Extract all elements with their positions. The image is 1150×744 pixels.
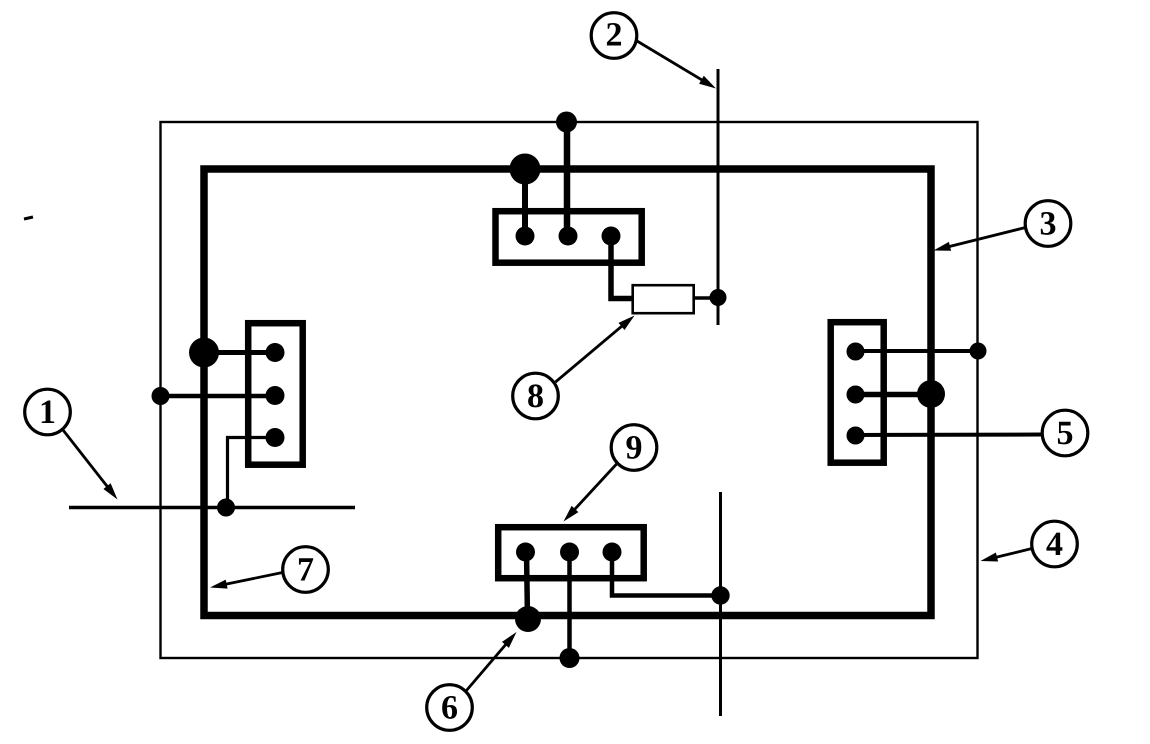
node dot: J4 pin 3 to net 2: [711, 586, 729, 604]
pin J3-2: [847, 386, 865, 404]
wire: J4 pin 1 to bottom ring junction: [527, 552, 528, 619]
board outline (outer thin rectangle): [161, 122, 978, 658]
resistor R1: [633, 285, 694, 313]
wire: left edge dot to J2 pin 2: [161, 394, 276, 399]
ground ring trace (inner thick rectangle): [204, 169, 931, 616]
node dot: bottom board edge: [560, 648, 580, 668]
junction dot: right ring / J3 pin2 net: [917, 380, 945, 408]
connector J3 (right): [831, 322, 884, 463]
node dot: left board edge: [152, 387, 170, 405]
leader arrow for callout 8: [556, 322, 627, 382]
callout circle 8: [513, 373, 559, 419]
pin J3-1: [847, 343, 865, 361]
callout label 2: [607, 23, 621, 46]
wire: J3 pin 2 to right ring junction: [856, 392, 932, 398]
leader arrow for callout 2: [637, 41, 707, 83]
connector J4 (bottom): [498, 527, 644, 578]
wire: vertical trace line, net 2 lower segment: [719, 492, 722, 716]
leader arrow for callout 9: [570, 462, 618, 514]
callout circle 1: [25, 389, 71, 435]
pin J4-3: [603, 543, 622, 562]
wire: J3 pin 1 to right edge dot: [856, 349, 979, 353]
node dot: right board edge: [970, 343, 987, 360]
leader arrow for callout 6: [466, 640, 510, 691]
wire: J2 pin 3 to net 1 junction: [228, 438, 276, 508]
pin J2-1: [266, 343, 285, 362]
callout label 5: [1058, 422, 1072, 445]
callout label 1: [42, 401, 55, 423]
pin J3-3: [847, 427, 865, 445]
callout label 8: [528, 384, 543, 407]
wire: J4 pin 3 to net 2 junction: [612, 552, 721, 596]
wire: left ring junction to J2 pin 1: [204, 350, 275, 355]
callout circle 4: [1032, 521, 1078, 567]
pin J1-1: [516, 227, 535, 246]
wire: vertical trace line, net 2 upper segment: [717, 69, 720, 325]
node dot: net 1 junction: [217, 499, 235, 517]
wire: J3 pin 3 lead out to callout 5: [856, 433, 1043, 438]
leader arrow for callout 4: [990, 549, 1032, 559]
callout circle 2: [591, 13, 637, 59]
callout label 7: [299, 558, 313, 580]
leader arrow for callout 3: [943, 228, 1025, 249]
wire: J1 pin 3 to resistor R1: [611, 233, 633, 299]
wire: horizontal trace line, net 1: [69, 506, 355, 510]
junction dot: left ring / J2 pin1 net: [189, 338, 219, 368]
pin J2-2: [266, 386, 285, 405]
callout label 4: [1046, 533, 1062, 555]
callout label 3: [1041, 212, 1056, 235]
callout circle 5: [1042, 410, 1088, 456]
pin J2-3: [266, 428, 285, 447]
pin J4-2: [560, 543, 579, 562]
junction dot: bottom ring / J4 pin1 net: [515, 606, 541, 632]
node dot: top board edge: [556, 112, 577, 133]
stray mark: [24, 217, 33, 219]
wire: top edge dot to J1 pin 2: [564, 122, 571, 236]
pin J4-1: [516, 543, 535, 562]
node dot: resistor to net 2: [710, 289, 727, 306]
connector J2 (left): [248, 323, 303, 465]
callout label 6: [442, 696, 457, 719]
callout circle 3: [1025, 201, 1071, 247]
callout circle 7: [283, 547, 329, 593]
junction dot: top ring / J1 pin1 net: [510, 154, 541, 185]
pin J1-3: [602, 227, 621, 246]
callout label 9: [626, 436, 641, 459]
callout circle 9: [611, 425, 657, 471]
wire: junction to J1 pin 1: [522, 166, 528, 236]
connector J1 (top): [496, 211, 642, 263]
wire: resistor R1 to net 2 junction: [694, 296, 719, 300]
leader arrow for callout 1: [63, 430, 111, 492]
leader arrow for callout 7: [220, 573, 283, 586]
wire: J4 pin 2 to bottom edge dot: [567, 552, 572, 658]
pin J1-2: [559, 227, 578, 246]
callout circle 6: [427, 685, 473, 731]
